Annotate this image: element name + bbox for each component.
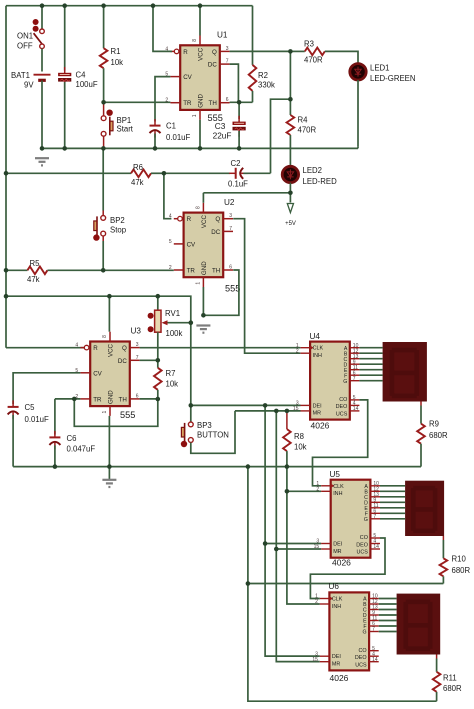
svg-text:CO: CO xyxy=(359,648,367,654)
svg-text:470R: 470R xyxy=(298,126,317,135)
svg-text:3: 3 xyxy=(136,342,139,348)
svg-text:680R: 680R xyxy=(443,684,462,693)
svg-text:+5V: +5V xyxy=(285,221,296,227)
svg-text:CLK: CLK xyxy=(332,597,343,603)
svg-text:7: 7 xyxy=(373,514,376,520)
svg-text:7: 7 xyxy=(372,627,375,633)
svg-text:DEI: DEI xyxy=(333,542,342,548)
svg-text:6: 6 xyxy=(229,265,232,271)
svg-text:2: 2 xyxy=(296,348,299,354)
svg-text:14: 14 xyxy=(373,544,379,550)
svg-text:ON1: ON1 xyxy=(17,31,33,40)
svg-text:TH: TH xyxy=(212,268,220,275)
svg-text:8: 8 xyxy=(195,206,201,209)
svg-text:UCS: UCS xyxy=(336,412,348,418)
svg-text:47k: 47k xyxy=(27,275,40,284)
svg-text:R5: R5 xyxy=(30,259,41,268)
svg-text:DEI: DEI xyxy=(313,403,322,409)
svg-text:10k: 10k xyxy=(166,380,179,389)
svg-text:OFF: OFF xyxy=(17,41,33,50)
svg-text:680R: 680R xyxy=(429,431,448,440)
svg-text:R10: R10 xyxy=(452,555,467,564)
svg-text:DEO: DEO xyxy=(336,404,348,410)
svg-text:C1: C1 xyxy=(166,122,176,131)
svg-text:GND: GND xyxy=(198,93,205,107)
svg-text:C2: C2 xyxy=(231,159,241,168)
svg-text:R4: R4 xyxy=(298,116,309,125)
svg-text:22uF: 22uF xyxy=(213,130,232,140)
svg-text:Q: Q xyxy=(122,345,127,352)
svg-text:Q: Q xyxy=(212,49,217,56)
svg-text:U1: U1 xyxy=(217,31,228,40)
svg-text:7: 7 xyxy=(136,355,139,361)
svg-text:R: R xyxy=(93,345,98,352)
svg-text:U6: U6 xyxy=(329,582,340,591)
svg-text:3: 3 xyxy=(226,46,229,52)
svg-text:R8: R8 xyxy=(294,432,304,441)
svg-text:CLK: CLK xyxy=(313,346,324,352)
svg-text:LED-GREEN: LED-GREEN xyxy=(370,74,416,83)
svg-text:UCS: UCS xyxy=(357,550,369,556)
svg-text:GND: GND xyxy=(201,261,208,275)
svg-text:GND: GND xyxy=(108,390,115,404)
svg-text:U2: U2 xyxy=(224,198,235,207)
svg-text:100k: 100k xyxy=(166,329,183,338)
svg-text:0.047uF: 0.047uF xyxy=(67,445,96,454)
svg-text:470R: 470R xyxy=(304,56,323,65)
svg-text:VCC: VCC xyxy=(201,215,208,229)
svg-text:330k: 330k xyxy=(258,81,275,90)
svg-text:555: 555 xyxy=(120,410,135,420)
svg-text:CV: CV xyxy=(93,370,102,377)
svg-text:100uF: 100uF xyxy=(76,80,98,89)
svg-text:RV1: RV1 xyxy=(165,309,180,318)
svg-text:VCC: VCC xyxy=(198,47,205,61)
svg-text:Stop: Stop xyxy=(110,225,127,234)
svg-text:G: G xyxy=(343,379,347,385)
svg-text:DEO: DEO xyxy=(356,542,368,548)
svg-text:MR: MR xyxy=(333,549,341,555)
svg-text:INH: INH xyxy=(332,604,341,610)
svg-text:MR: MR xyxy=(313,411,321,417)
svg-text:BAT1: BAT1 xyxy=(11,71,30,80)
svg-text:TH: TH xyxy=(119,396,127,403)
svg-text:8: 8 xyxy=(192,39,198,42)
svg-text:R1: R1 xyxy=(111,47,121,56)
svg-text:1: 1 xyxy=(192,114,198,117)
svg-text:C5: C5 xyxy=(25,403,36,412)
svg-text:INH: INH xyxy=(313,353,322,359)
svg-text:CV: CV xyxy=(183,74,192,81)
svg-text:DEI: DEI xyxy=(332,654,341,660)
svg-text:6: 6 xyxy=(226,97,229,103)
svg-text:3: 3 xyxy=(229,213,232,219)
svg-text:R3: R3 xyxy=(304,40,314,49)
svg-text:R: R xyxy=(187,216,192,223)
svg-text:CO: CO xyxy=(339,397,347,403)
svg-text:TR: TR xyxy=(93,396,102,403)
svg-text:CV: CV xyxy=(187,241,196,248)
svg-text:0.01uF: 0.01uF xyxy=(166,133,191,142)
svg-text:DC: DC xyxy=(208,62,217,69)
svg-text:C4: C4 xyxy=(76,71,87,80)
svg-text:TR: TR xyxy=(183,100,192,107)
svg-text:C3: C3 xyxy=(215,121,226,131)
svg-text:CO: CO xyxy=(360,535,368,541)
svg-text:47k: 47k xyxy=(131,178,144,187)
svg-text:7: 7 xyxy=(353,376,356,382)
svg-text:BUTTON: BUTTON xyxy=(197,431,229,440)
svg-text:10k: 10k xyxy=(111,58,124,67)
svg-text:R9: R9 xyxy=(429,420,439,429)
svg-text:4026: 4026 xyxy=(330,673,349,683)
svg-text:7: 7 xyxy=(229,226,232,232)
svg-text:LED1: LED1 xyxy=(370,63,390,72)
svg-text:DC: DC xyxy=(211,229,220,236)
svg-text:14: 14 xyxy=(353,406,359,412)
svg-text:BP2: BP2 xyxy=(110,216,125,225)
svg-text:TR: TR xyxy=(187,268,196,275)
svg-text:14: 14 xyxy=(372,657,378,663)
svg-text:5: 5 xyxy=(169,239,172,245)
svg-text:8: 8 xyxy=(102,335,108,338)
svg-text:R7: R7 xyxy=(166,369,176,378)
svg-text:LED2: LED2 xyxy=(303,166,323,175)
svg-text:Q: Q xyxy=(215,216,220,223)
svg-text:R: R xyxy=(183,49,188,56)
svg-text:TH: TH xyxy=(209,100,217,107)
svg-text:G: G xyxy=(363,630,367,636)
svg-text:DEO: DEO xyxy=(355,655,367,661)
svg-text:0.01uF: 0.01uF xyxy=(25,415,50,424)
svg-text:INH: INH xyxy=(333,491,342,497)
svg-text:0.1uF: 0.1uF xyxy=(228,179,248,188)
svg-text:680R: 680R xyxy=(452,566,471,575)
svg-text:U4: U4 xyxy=(310,332,321,341)
svg-text:10k: 10k xyxy=(294,443,307,452)
svg-text:6: 6 xyxy=(136,393,139,399)
svg-text:4: 4 xyxy=(75,343,78,349)
svg-text:C6: C6 xyxy=(67,434,77,443)
svg-text:U3: U3 xyxy=(131,327,142,336)
svg-text:G: G xyxy=(364,517,368,523)
svg-text:U5: U5 xyxy=(330,470,341,479)
svg-text:UCS: UCS xyxy=(355,662,367,668)
svg-text:MR: MR xyxy=(332,662,340,668)
svg-text:R2: R2 xyxy=(258,71,268,80)
svg-text:4026: 4026 xyxy=(332,558,351,568)
svg-text:R6: R6 xyxy=(133,163,143,172)
svg-text:CLK: CLK xyxy=(333,484,344,490)
svg-text:555: 555 xyxy=(225,284,240,294)
svg-text:1: 1 xyxy=(102,410,108,413)
svg-text:BP3: BP3 xyxy=(197,421,212,430)
svg-text:15: 15 xyxy=(312,657,318,663)
svg-text:2: 2 xyxy=(315,599,318,605)
svg-text:LED-RED: LED-RED xyxy=(303,177,338,186)
svg-text:9V: 9V xyxy=(24,80,34,89)
svg-text:DC: DC xyxy=(118,358,127,365)
svg-text:R11: R11 xyxy=(443,674,457,683)
svg-text:VCC: VCC xyxy=(108,343,115,357)
svg-text:4026: 4026 xyxy=(311,421,330,431)
svg-text:7: 7 xyxy=(226,59,229,65)
svg-text:Start: Start xyxy=(117,124,134,133)
svg-text:1: 1 xyxy=(195,282,201,285)
